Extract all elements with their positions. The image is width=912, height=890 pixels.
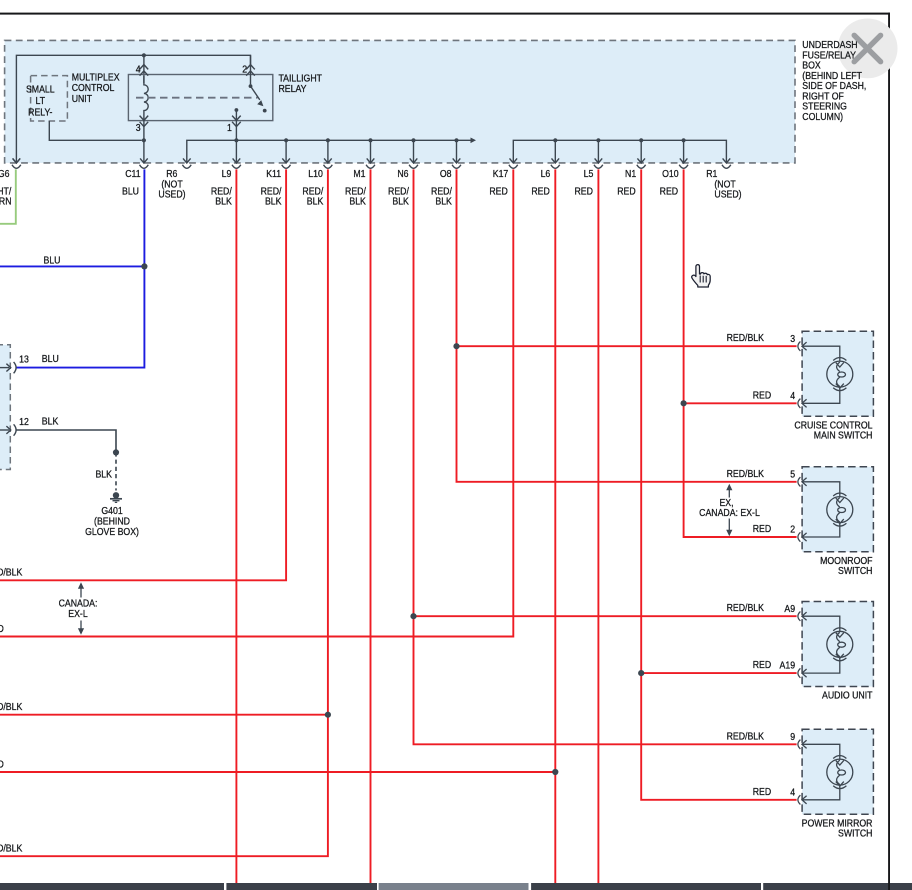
node on bus x=555.3 <box>553 138 557 142</box>
connector M1 at underdash box border <box>366 158 375 168</box>
wire BLU branch to left edge <box>0 265 144 267</box>
wire RED K17 column to left edge <box>0 169 513 636</box>
wire RED/BLK N6 column <box>414 169 797 744</box>
svg-text:A19: A19 <box>780 659 796 671</box>
wire RED/BLK branch into L10 <box>0 714 328 716</box>
svg-text:3: 3 <box>136 122 141 134</box>
connector L6 at underdash box border <box>551 158 560 168</box>
bus drop at x=641.2 <box>640 140 642 163</box>
arrowhead into G6 at border <box>13 158 21 163</box>
bus drop at x=370.5 <box>370 140 372 163</box>
relay pin 4 chevrons <box>140 65 149 76</box>
close button X <box>854 35 880 61</box>
wire BLK from pin 12 to ground <box>16 430 116 452</box>
bus from K17 to R1 <box>513 140 726 163</box>
svg-text:AUDIO UNIT: AUDIO UNIT <box>822 689 873 701</box>
svg-text:C11: C11 <box>125 168 140 180</box>
option arrows EX, CANADA: EX-L (moonroof) <box>728 486 730 535</box>
svg-text:SWITCH: SWITCH <box>838 827 872 839</box>
bus drop at x=555.3 <box>554 140 556 163</box>
wire: relay pin 3 down to C11 <box>143 119 145 163</box>
relay pin 2 chevrons <box>246 65 255 76</box>
bus drop at x=598.4 <box>597 140 599 163</box>
bus from R6 to O8 with continuation arrow <box>187 140 471 163</box>
connector R1 at underdash box border <box>722 158 731 168</box>
svg-text:2: 2 <box>790 523 795 535</box>
svg-text:UNIT: UNIT <box>72 92 93 104</box>
relay pin1 inner stub <box>235 108 239 112</box>
relay pin 3 chevrons <box>140 116 149 127</box>
underdash fuse/relay box <box>5 40 795 162</box>
svg-text:12: 12 <box>19 415 29 427</box>
node on bus x=683.6 <box>682 138 686 142</box>
svg-text:RED/BLK: RED/BLK <box>0 566 23 578</box>
connector L5 at underdash box border <box>594 158 603 168</box>
svg-text:L9: L9 <box>222 168 232 180</box>
taillight relay box <box>128 75 272 121</box>
wire: small lt relay to pin3 node <box>49 121 142 140</box>
node on bus x=370.5 <box>368 138 372 142</box>
svg-text:RED: RED <box>617 185 636 197</box>
node on bus x=641.2 <box>639 138 643 142</box>
svg-text:RED: RED <box>753 389 772 401</box>
svg-text:RED: RED <box>753 659 772 671</box>
svg-text:K11: K11 <box>266 168 281 180</box>
wire BLU from C11 down <box>16 169 145 367</box>
svg-text:9: 9 <box>790 730 795 742</box>
dashed BLK drop to ground <box>115 452 117 490</box>
svg-text:RED: RED <box>489 185 508 197</box>
bus drop at x=683.6 <box>683 140 685 163</box>
svg-text:13: 13 <box>19 353 29 365</box>
wire RED O10 branch to cruise pin 4 <box>684 402 797 404</box>
svg-text:RED: RED <box>753 522 772 534</box>
svg-text:BLK: BLK <box>95 468 112 480</box>
svg-text:CANADA: EX-L: CANADA: EX-L <box>699 506 760 518</box>
top frame border <box>0 13 890 15</box>
svg-text:1: 1 <box>227 122 232 134</box>
svg-text:L5: L5 <box>584 168 594 180</box>
connector N1 at underdash box border <box>637 158 646 168</box>
wire RED/BLK M1 column <box>370 169 372 883</box>
node on bus x=413.5 <box>411 138 415 142</box>
svg-text:GLOVE BOX): GLOVE BOX) <box>85 525 139 537</box>
node: left branch into L10 <box>325 712 331 718</box>
node on bus x=598.4 <box>596 138 600 142</box>
relay internal dashed link <box>136 97 258 99</box>
bottom scrollbar track <box>0 883 912 890</box>
connector G6 at underdash box border <box>12 158 21 168</box>
node: left branch into L6 <box>552 769 558 775</box>
option arrows CANADA: EX-L (left) <box>80 584 82 633</box>
svg-text:BLK: BLK <box>215 195 232 207</box>
bus drop at x=327.9 <box>327 140 329 163</box>
svg-text:RED: RED <box>660 185 679 197</box>
relay switch blade <box>251 86 260 100</box>
wire RED O10 column <box>684 169 797 537</box>
mouse hand cursor <box>692 265 710 287</box>
relay switch contact <box>263 109 267 113</box>
wire RED/BLK L10 column <box>0 169 328 856</box>
svg-text:RED/BLK: RED/BLK <box>727 730 765 742</box>
small lt relay box <box>31 76 68 121</box>
wire RED L5 column <box>597 169 599 883</box>
relay pin 1 chevrons <box>232 116 241 127</box>
wire RED/BLK O8 branch to cruise pin 3 <box>457 345 797 347</box>
svg-text:EX-L: EX-L <box>68 607 87 619</box>
svg-text:3: 3 <box>790 332 795 344</box>
close button circle <box>838 19 898 79</box>
svg-text:A9: A9 <box>784 602 795 614</box>
wire RED L6 column <box>554 169 556 883</box>
node: BLU junction <box>141 263 147 269</box>
node on bus x=327.9 <box>326 138 330 142</box>
node: O10 to cruise pin4 <box>681 400 687 406</box>
node: N6 to audio A9 <box>410 613 416 619</box>
wire RED/BLK N6 branch to audio A9 <box>414 615 797 617</box>
svg-text:4: 4 <box>136 63 141 75</box>
connector L9 at underdash box border <box>232 158 241 168</box>
node: pin3/small-relay junction <box>142 138 146 142</box>
svg-text:RED/BLK: RED/BLK <box>727 332 765 344</box>
svg-text:RED: RED <box>0 622 4 634</box>
node: O8 to cruise pin3 <box>453 343 459 349</box>
svg-text:RELY-: RELY- <box>28 106 52 118</box>
right frame border <box>888 13 890 890</box>
svg-text:RED/BLK: RED/BLK <box>727 467 765 479</box>
svg-text:RED: RED <box>753 785 772 797</box>
bottom scrollbar thumb <box>379 883 529 890</box>
wire RED/BLK O8 column <box>457 169 797 481</box>
wire WHT/GRN from G6 <box>0 169 16 223</box>
wire: relay pin 1 down to L9 <box>235 120 237 163</box>
wire: top net from G6 drop to relay pins 4 and 2 <box>16 55 250 163</box>
svg-text:L10: L10 <box>308 168 323 180</box>
svg-text:5: 5 <box>790 468 795 480</box>
svg-text:RED: RED <box>531 185 550 197</box>
connector L10 at underdash box border <box>324 158 333 168</box>
moonroof switch <box>802 467 873 552</box>
connector pin 13 of left component <box>0 362 16 373</box>
connector K17 at underdash box border <box>509 158 518 168</box>
node: BLK splice <box>113 449 119 455</box>
svg-text:SMALL: SMALL <box>26 83 55 95</box>
svg-text:RED: RED <box>0 758 4 770</box>
bus drop at x=286.1 <box>285 140 287 163</box>
connector R6 at underdash box border <box>182 158 191 168</box>
wire RED/BLK K11 column to left edge <box>0 169 286 580</box>
svg-text:BLK: BLK <box>392 195 409 207</box>
audio unit <box>802 602 873 687</box>
svg-text:BLK: BLK <box>42 415 59 427</box>
svg-text:SWITCH: SWITCH <box>838 565 872 577</box>
svg-text:BLK: BLK <box>349 195 366 207</box>
connector C11 at underdash box border <box>140 158 149 168</box>
bus drop at x=413.5 <box>413 140 415 163</box>
svg-text:G6: G6 <box>0 168 10 180</box>
svg-text:L6: L6 <box>541 168 551 180</box>
node on bus x=236.4 <box>234 138 238 142</box>
svg-text:MAIN SWITCH: MAIN SWITCH <box>814 429 873 441</box>
bus drop at x=456.5 <box>456 140 458 163</box>
wire RED N1 column <box>641 169 796 799</box>
svg-text:USED): USED) <box>158 188 185 200</box>
svg-text:GRN: GRN <box>0 195 11 207</box>
svg-text:M1: M1 <box>353 168 365 180</box>
svg-text:RED/BLK: RED/BLK <box>0 842 23 854</box>
connector O10 at underdash box border <box>679 158 688 168</box>
svg-text:4: 4 <box>790 786 795 798</box>
svg-text:RED: RED <box>574 185 593 197</box>
svg-text:N1: N1 <box>625 168 636 180</box>
svg-text:K17: K17 <box>493 168 509 180</box>
svg-text:4: 4 <box>790 389 795 401</box>
relay coil <box>144 76 148 119</box>
connector pin 12 of left component <box>0 424 16 435</box>
node on bus x=456.5 <box>454 138 458 142</box>
node on bus x=286.1 <box>284 138 288 142</box>
svg-text:BLK: BLK <box>307 195 324 207</box>
ground G401 <box>113 492 119 498</box>
wire RED N1 branch to audio A19 <box>641 672 796 674</box>
node: N1 to audio A19 <box>638 670 644 676</box>
svg-text:BLU: BLU <box>43 254 60 266</box>
svg-text:O8: O8 <box>440 168 452 180</box>
connector O8 at underdash box border <box>452 158 461 168</box>
svg-text:O10: O10 <box>662 168 679 180</box>
svg-text:BLU: BLU <box>122 185 139 197</box>
wire RED/BLK L9 column <box>235 169 237 883</box>
svg-text:LT: LT <box>36 95 46 107</box>
cruise control main switch <box>802 331 873 416</box>
svg-text:BLK: BLK <box>435 195 452 207</box>
connector K11 at underdash box border <box>282 158 291 168</box>
wire RED branch into L6 <box>0 771 555 773</box>
svg-text:2: 2 <box>242 63 247 75</box>
svg-text:N6: N6 <box>397 168 408 180</box>
relay switch pivot <box>249 84 253 88</box>
svg-text:COLUMN): COLUMN) <box>802 110 843 122</box>
power mirror switch <box>802 729 873 814</box>
node: junction on top net above pin 4 <box>142 53 146 57</box>
connector N6 at underdash box border <box>409 158 418 168</box>
svg-text:RED/BLK: RED/BLK <box>727 602 765 614</box>
left component box (cut off) <box>0 345 10 470</box>
svg-text:RED/BLK: RED/BLK <box>0 701 23 713</box>
svg-text:USED): USED) <box>714 188 741 200</box>
svg-text:RELAY: RELAY <box>279 82 308 94</box>
svg-text:BLK: BLK <box>265 195 282 207</box>
svg-text:BLU: BLU <box>42 352 59 364</box>
